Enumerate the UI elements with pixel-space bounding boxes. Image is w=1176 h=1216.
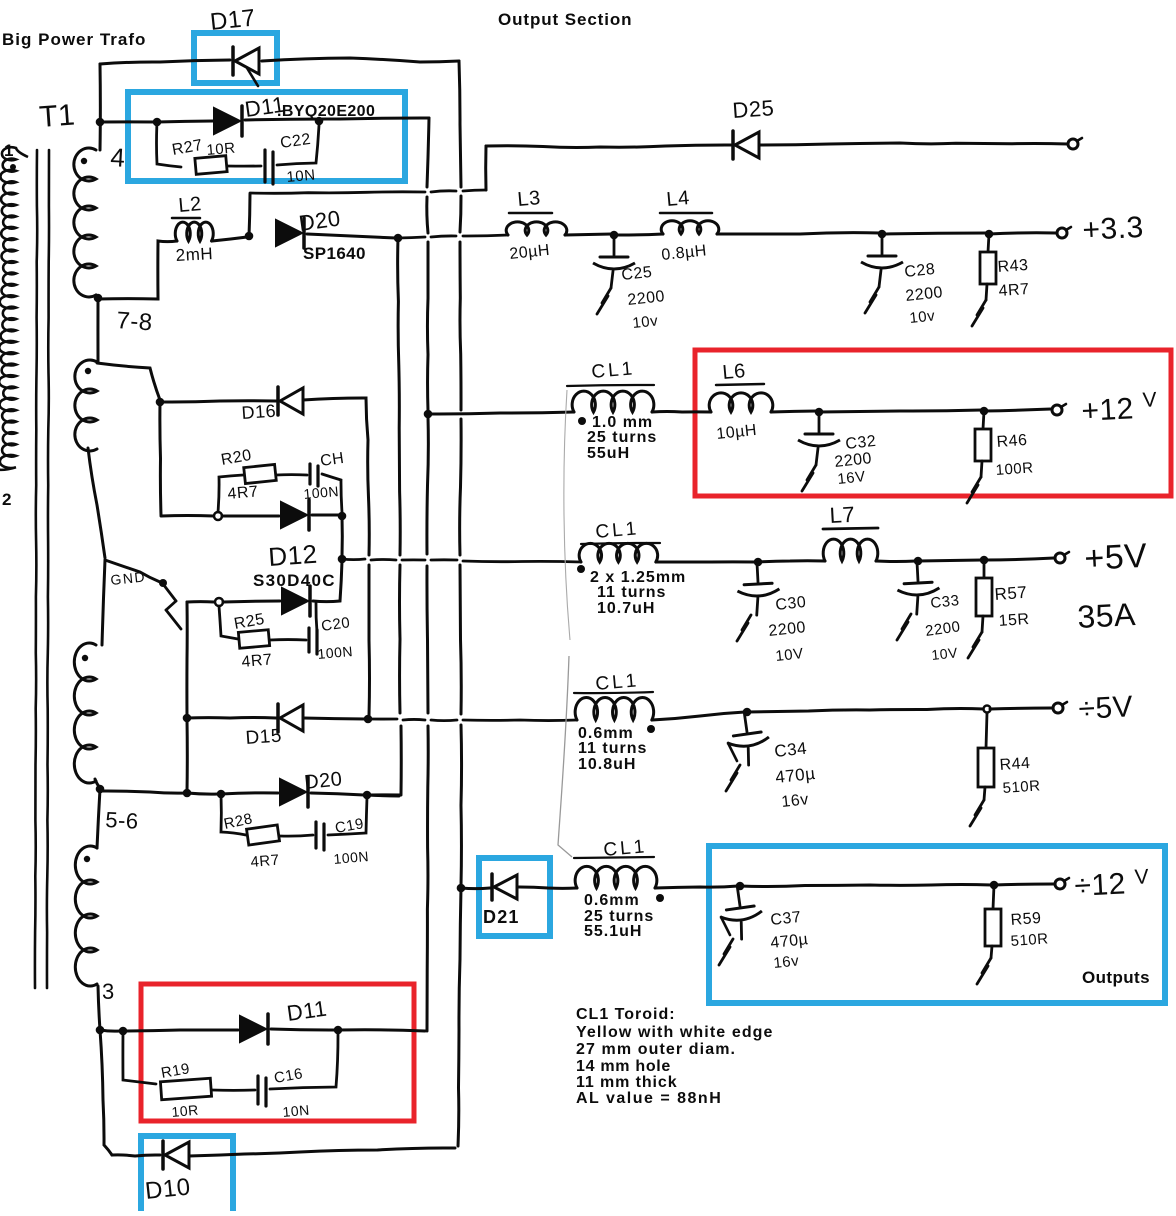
- node D11 snubber left: [153, 118, 162, 127]
- wire top rail to D17 and right: [100, 60, 230, 64]
- svg-text:SP1640: SP1640: [303, 244, 366, 263]
- svg-text:15R: 15R: [998, 611, 1030, 630]
- wire V3 to D21: [461, 887, 490, 891]
- wire R59 to -12V terminal: [994, 884, 1054, 885]
- svg-text:11 turns: 11 turns: [578, 740, 647, 757]
- svg-text:10R: 10R: [171, 1102, 199, 1120]
- wire top bus from tap 4 up: [99, 64, 102, 150]
- svg-text:D21: D21: [483, 907, 520, 927]
- resistor R19: [160, 1078, 211, 1099]
- wire R46 to +12V terminal: [984, 409, 1051, 411]
- node C33: [914, 557, 923, 566]
- wire to D10: [112, 1155, 160, 1156]
- node C34: [743, 708, 752, 717]
- svg-text:25 turns: 25 turns: [587, 429, 657, 446]
- wire vertical bus V1 (+3.3 node down to bottom D20 row): [398, 238, 401, 555]
- wire D15 row left: [187, 716, 276, 720]
- wire R25 snubber left leg: [219, 606, 238, 639]
- node V2 +12V takeoff: [424, 410, 433, 419]
- svg-text:+12: +12: [1081, 392, 1135, 428]
- wire D20 cathode to +3.3 node: [307, 234, 396, 238]
- svg-text:D16: D16: [241, 401, 277, 423]
- node D20 bottom left: [183, 789, 192, 798]
- svg-text:C25: C25: [621, 264, 653, 284]
- svg-text:5-6: 5-6: [105, 807, 140, 834]
- highlight box around D11/R19/C16 bottom snubber: [141, 984, 414, 1121]
- node R46: [980, 407, 989, 416]
- node tap 3: [96, 1026, 105, 1035]
- svg-text:C37: C37: [770, 909, 802, 929]
- svg-text:D12: D12: [267, 539, 318, 572]
- winding D phase dot: [84, 856, 90, 862]
- wire D16 cathode right and down: [303, 398, 369, 555]
- choke CL1 (+5V): [579, 543, 658, 562]
- node C30: [754, 558, 763, 567]
- wire from L2/D20 node up and right toward D25: [249, 194, 250, 236]
- svg-text:100N: 100N: [317, 643, 354, 662]
- svg-text:L6: L6: [722, 360, 747, 384]
- node +5V source: [338, 555, 347, 564]
- node D12 upper output: [338, 512, 347, 521]
- svg-text:CH: CH: [319, 450, 345, 470]
- wire +12V rail from V2: [428, 412, 574, 414]
- svg-text:11 mm thick: 11 mm thick: [576, 1074, 678, 1091]
- wire D16 node down to D12 top row: [160, 402, 161, 515]
- node phase dot CL1 -12V (right): [656, 894, 664, 902]
- capacitor C25: [593, 237, 635, 288]
- wire D16 anode row: [160, 401, 276, 402]
- capacitor C19: [314, 822, 317, 848]
- wire left bus to D12-bottom row: [187, 600, 214, 603]
- wire to V2 bus corner: [338, 1030, 425, 1031]
- svg-text:D10: D10: [144, 1173, 192, 1205]
- svg-text:D17: D17: [209, 4, 257, 36]
- diode D25: [731, 131, 735, 159]
- node C19 top junction: [363, 791, 372, 800]
- node D15 left: [183, 714, 192, 723]
- svg-text:10V: 10V: [775, 645, 805, 665]
- wire 5-6 tap to D20 row: [100, 791, 187, 793]
- secondary winding A (pins 4 to 7): [74, 148, 96, 297]
- svg-text:27 mm outer diam.: 27 mm outer diam.: [576, 1041, 736, 1058]
- inductor L4: [661, 221, 719, 234]
- wire R20 to C14: [276, 473, 307, 476]
- wire GND branch: [105, 560, 160, 582]
- svg-text:10V: 10V: [931, 644, 959, 663]
- svg-text:CL1: CL1: [595, 518, 641, 543]
- wire R19 to C16: [212, 1089, 255, 1092]
- diode D15: [276, 704, 280, 732]
- ground symbol at GND tap: [163, 584, 176, 601]
- wire +5V rail from D12 node: [342, 558, 365, 561]
- svg-text:S30D40C: S30D40C: [253, 571, 336, 590]
- terminal -12V: [1055, 879, 1065, 889]
- highlight box around +12V output section: [695, 350, 1171, 496]
- svg-text:R44: R44: [999, 755, 1031, 774]
- wire D10 to V3 bus: [189, 1148, 455, 1156]
- wire winding C bottom to 5-6 tap: [95, 779, 100, 788]
- wire vertical bus V2 (D11 cathode to +12V and bottom D11): [427, 118, 429, 187]
- wire R20 snubber left leg: [218, 475, 243, 512]
- svg-text:÷12: ÷12: [1074, 867, 1127, 903]
- svg-text:10N: 10N: [282, 1102, 310, 1120]
- resistor R44: [986, 713, 987, 748]
- svg-text:11 turns: 11 turns: [597, 584, 666, 601]
- highlight box around D11/R27/C22 snubber: [128, 92, 405, 181]
- node C16 junction: [334, 1026, 343, 1035]
- highlight box around D21: [479, 858, 550, 936]
- node R44 (small circle): [984, 706, 991, 713]
- wire left bus D12row-D15row-D20row: [185, 602, 188, 717]
- svg-text:Big Power Trafo: Big Power Trafo: [2, 30, 146, 49]
- node D16 anode: [156, 398, 165, 407]
- terminal D25 output: [1068, 139, 1078, 149]
- faint guide line near CL1 chokes lower: [558, 656, 572, 857]
- svg-text:V: V: [1142, 388, 1158, 412]
- wire C14 to D12 output: [322, 474, 342, 512]
- inductor L7: [823, 539, 878, 561]
- svg-text:16v: 16v: [773, 952, 800, 972]
- wire C25 node to L4: [614, 234, 663, 235]
- svg-text:35A: 35A: [1076, 596, 1136, 635]
- wire CL1 to C37 node: [655, 886, 738, 888]
- wire R28 to C19: [280, 835, 313, 836]
- primary winding of T1: [0, 147, 28, 470]
- capacitor C30: [736, 563, 781, 616]
- svg-text:1: 1: [4, 141, 14, 160]
- capacitor C37: [717, 885, 766, 941]
- secondary winding C: [74, 643, 96, 783]
- wire R25 to C20: [270, 638, 306, 641]
- node tap4/D11 junction: [96, 118, 105, 127]
- winding B phase dot: [85, 368, 91, 374]
- wire R19 snubber left leg: [123, 1031, 156, 1084]
- svg-text:2mH: 2mH: [175, 244, 213, 265]
- resistor R43: [988, 234, 989, 252]
- node R28 snubber tap: [217, 790, 226, 799]
- svg-text:55uH: 55uH: [587, 445, 630, 462]
- wire R43 to +3.3 terminal: [989, 233, 1056, 234]
- wire L2 to D20 node: [212, 237, 247, 241]
- svg-text:7-8: 7-8: [116, 307, 154, 336]
- node C28: [878, 230, 887, 239]
- faint guide line near CL1 chokes upper: [564, 390, 570, 640]
- wire L7 to C33 node: [876, 560, 916, 564]
- resistor R27: [195, 156, 227, 175]
- svg-text:16v: 16v: [781, 791, 810, 811]
- node R57: [980, 556, 989, 565]
- svg-text:+3.3: +3.3: [1082, 211, 1145, 247]
- transformer core lines: [35, 150, 37, 988]
- svg-text:10v: 10v: [632, 312, 659, 332]
- wire C20 up to D12-lower cathode: [316, 603, 317, 632]
- svg-text:Outputs: Outputs: [1082, 968, 1150, 987]
- svg-text:V: V: [1134, 865, 1150, 889]
- inductor L2: [175, 222, 213, 241]
- node C32: [815, 408, 824, 417]
- svg-text:10.7uH: 10.7uH: [597, 600, 655, 617]
- svg-text:510R: 510R: [1002, 777, 1041, 797]
- wire D25 to output terminal: [759, 143, 1068, 145]
- wire 5-6 tap down to winding D: [97, 789, 100, 848]
- svg-text:C34: C34: [773, 739, 807, 761]
- node 7-8: [94, 294, 103, 303]
- inductor L3: [506, 222, 567, 235]
- node snubber tap lower (open circle): [215, 598, 223, 606]
- capacitor C22: [263, 150, 266, 182]
- svg-text:16V: 16V: [837, 468, 867, 488]
- wire D20-bottom cathode to V1: [311, 793, 364, 795]
- diode D21: [490, 874, 494, 900]
- wire winding D bottom to tap 3 node: [98, 986, 100, 1030]
- diode D12 upper: [281, 502, 307, 528]
- node R19 snubber tap: [119, 1027, 128, 1036]
- svg-text:R46: R46: [996, 432, 1028, 451]
- wire R28 snubber left leg: [221, 794, 246, 835]
- node R59: [990, 881, 999, 890]
- resistor R57: [983, 560, 986, 578]
- wire +3.3 rail start: [398, 237, 425, 238]
- diode D11 (bottom): [240, 1016, 266, 1042]
- svg-text:100R: 100R: [995, 459, 1034, 479]
- svg-text:R43: R43: [997, 257, 1029, 276]
- svg-text:4: 4: [110, 142, 127, 173]
- svg-text:4R7: 4R7: [250, 852, 280, 871]
- wire C32 to R46 node: [819, 410, 982, 412]
- wire D11 cathode to V2 bus: [245, 118, 429, 120]
- svg-text:3: 3: [102, 979, 115, 1004]
- wire R27/C22 snubber left leg: [157, 122, 182, 167]
- wire L6 to C32 node: [771, 411, 817, 412]
- node C25: [610, 231, 619, 240]
- svg-text:AL value = 88nH: AL value = 88nH: [576, 1090, 722, 1107]
- winding C phase dot: [82, 655, 88, 661]
- svg-text:100N: 100N: [333, 848, 370, 867]
- highlight box around D17: [194, 33, 277, 83]
- svg-text:C30: C30: [775, 594, 807, 614]
- svg-text:÷5V: ÷5V: [1078, 690, 1134, 726]
- primary phase dot: [10, 164, 16, 170]
- diode D12 lower: [282, 588, 308, 614]
- wire -5V rail from D15/D16 node: [368, 718, 397, 721]
- capacitor C33: [896, 562, 941, 615]
- svg-text:+5V: +5V: [1083, 537, 1148, 578]
- svg-text:4R7: 4R7: [998, 281, 1030, 300]
- svg-text:L7: L7: [829, 502, 856, 528]
- diode D20 (bottom): [280, 779, 306, 805]
- node C37: [736, 882, 745, 891]
- highlight box around -12V output section: [709, 846, 1165, 1003]
- wire C19 up to D20 row: [328, 797, 367, 835]
- diode D11 (top): [214, 108, 240, 134]
- capacitor C32: [798, 414, 840, 465]
- terminal +5V: [1055, 553, 1065, 563]
- wire R57 to +5V terminal: [984, 558, 1054, 560]
- secondary winding D: [75, 846, 97, 986]
- node +3.3 source: [394, 234, 403, 243]
- diode D16: [276, 387, 280, 415]
- wire L4 to C28 node: [717, 233, 880, 234]
- inductor L6: [709, 393, 773, 412]
- svg-text:100N: 100N: [303, 483, 340, 502]
- svg-text:0.6mm: 0.6mm: [584, 892, 640, 909]
- choke CL1 (-12V): [575, 866, 657, 888]
- wire D11 anode row: [100, 120, 157, 123]
- wire GND tap down to winding C: [102, 560, 105, 645]
- svg-text:CL1 Toroid:: CL1 Toroid:: [576, 1006, 676, 1023]
- resistor R25: [238, 630, 269, 649]
- wire C33 to R57 node: [918, 560, 982, 561]
- wire C37 to R59 node: [740, 884, 992, 886]
- wire D12-lower cathode up to +5V node: [313, 561, 342, 602]
- svg-text:C33: C33: [930, 592, 961, 612]
- wire CL1 to C34 node: [652, 712, 745, 720]
- capacitor C28: [861, 236, 903, 287]
- svg-text:L3: L3: [517, 187, 542, 211]
- wire CL1 to L6: [652, 410, 711, 414]
- svg-text:Output Section: Output Section: [498, 10, 632, 29]
- diode D20 (top): [276, 220, 302, 246]
- choke CL1 (+12V): [572, 391, 654, 412]
- svg-text:L2: L2: [178, 193, 203, 217]
- wire joining winding A bottom to winding B top (7-8): [96, 295, 98, 362]
- svg-text:10.8uH: 10.8uH: [578, 756, 636, 773]
- svg-text:L4: L4: [666, 187, 691, 211]
- wire winding B bottom to GND tap: [88, 448, 105, 558]
- resistor R46: [983, 411, 984, 429]
- diode D10: [161, 1141, 165, 1169]
- wire tap3 to bottom D11 row: [100, 1030, 120, 1031]
- wire D12-top anode row: [161, 514, 214, 517]
- wire C28 to R43 node: [882, 233, 987, 234]
- wire D15 cathode right: [303, 718, 366, 719]
- secondary winding B: [75, 360, 97, 451]
- svg-text:10N: 10N: [286, 167, 316, 186]
- node phase dot CL1 +5V: [577, 565, 585, 573]
- wire down to +5V rail node: [341, 516, 344, 557]
- svg-text:4R7: 4R7: [241, 651, 273, 671]
- svg-text:D25: D25: [732, 95, 776, 123]
- wire L3 to C25 node: [565, 234, 612, 235]
- resistor R20: [244, 464, 277, 483]
- node D15/D16 junction on -5V rail: [364, 715, 373, 724]
- svg-text:2: 2: [2, 490, 12, 509]
- choke CL1 (-5V): [575, 698, 654, 720]
- wire tap3 bus down to D10 row: [100, 1030, 112, 1155]
- wire winding B top to D16 node: [97, 363, 160, 400]
- svg-text:C28: C28: [904, 261, 936, 281]
- node phase dot CL1 -5V (right): [647, 725, 655, 733]
- terminal +3.3: [1057, 228, 1067, 238]
- wire CL1 to C30 node: [656, 560, 756, 563]
- node snubber tap (open circle): [214, 512, 222, 520]
- node L2/D20: [245, 232, 254, 241]
- svg-text:D15: D15: [245, 726, 283, 749]
- svg-text:14 mm hole: 14 mm hole: [576, 1058, 671, 1075]
- svg-text:T1: T1: [38, 99, 76, 134]
- svg-text:CL1: CL1: [591, 358, 637, 383]
- highlight box around D10: [141, 1136, 233, 1216]
- wire D12-upper cathode to +5V node: [312, 514, 340, 517]
- diode D17: [231, 47, 235, 75]
- wire vertical bus V3 (top rail to -12V row and D10): [459, 61, 461, 187]
- svg-text:10R: 10R: [206, 140, 236, 159]
- node 5-6 tap: [96, 785, 105, 794]
- wire R27 to C22: [227, 165, 261, 168]
- resistor R28: [247, 825, 280, 845]
- svg-text:R57: R57: [994, 583, 1028, 604]
- terminal -5V: [1053, 703, 1063, 713]
- svg-text:Yellow with white edge: Yellow with white edge: [576, 1024, 774, 1041]
- svg-text:CL1: CL1: [595, 670, 641, 695]
- wire C34 to R44 node: [747, 709, 984, 712]
- node R43: [985, 230, 994, 239]
- terminal +12V: [1052, 405, 1062, 415]
- svg-text:4R7: 4R7: [227, 483, 259, 503]
- node phase dot CL1 +12V: [578, 417, 586, 425]
- node D11 snubber right: [315, 117, 324, 126]
- wire 7-8 tap to L2: [98, 241, 177, 299]
- winding A phase dot: [81, 158, 87, 164]
- wire D11-bottom cathode to node: [271, 1029, 335, 1030]
- node D21 junction on V3: [457, 884, 466, 893]
- capacitor C34: [724, 711, 773, 767]
- resistor R59: [993, 885, 994, 909]
- node GND: [159, 579, 167, 587]
- wire C16 up to D11 node: [270, 1034, 338, 1089]
- svg-text:10v: 10v: [909, 307, 936, 327]
- svg-text:R59: R59: [1010, 910, 1042, 929]
- wire C30 to L7: [758, 561, 825, 562]
- capacitor C20: [307, 628, 310, 652]
- svg-text:D20: D20: [303, 768, 343, 794]
- svg-text:510R: 510R: [1010, 930, 1049, 950]
- wire D21 to CL1: [517, 887, 577, 888]
- svg-text:55.1uH: 55.1uH: [584, 923, 642, 940]
- wire R44 to -5V terminal: [990, 708, 1052, 709]
- wire C22 to D11 cathode node: [277, 125, 319, 165]
- svg-text:C32: C32: [845, 433, 877, 453]
- wire to D25: [486, 145, 731, 148]
- capacitor C16: [256, 1076, 259, 1104]
- capacitor C14 (CH): [308, 464, 311, 484]
